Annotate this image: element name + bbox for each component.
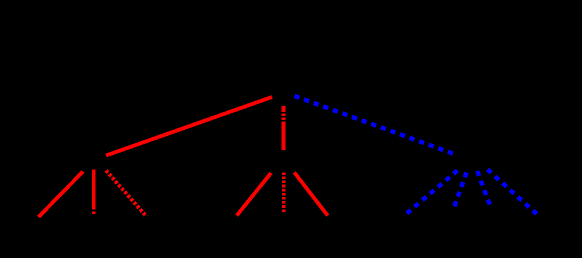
right node: edge to its third leaf (blue dashed, near vertical leaning right) <box>477 171 491 208</box>
left node: edge to its third leaf (red dotted, down-right) <box>106 171 147 217</box>
left node: edge to its second leaf (red vertical, solid plus end dot) <box>92 170 96 215</box>
right node: edge to its second leaf (blue dashed, near vertical leaning left) <box>454 173 467 208</box>
middle node: edge to its second leaf (red dotted vertical) <box>282 172 286 213</box>
middle node: edge to its first leaf (red solid, down-left) <box>237 173 271 216</box>
left node: edge to its first leaf (red solid, down-left) <box>39 172 84 218</box>
edge root to left child (red solid) <box>106 97 272 156</box>
right node: edge to its fourth leaf (blue dashed, down-right long) <box>488 170 540 217</box>
edge root to middle child (red vertical, solid with small gaps) <box>282 106 286 150</box>
middle node: edge to its third leaf (red solid, down-right) <box>294 172 327 215</box>
edge root to right child (blue dashed) <box>295 96 458 155</box>
right node: edge to its first leaf (blue dashed, down-left long) <box>406 171 458 215</box>
